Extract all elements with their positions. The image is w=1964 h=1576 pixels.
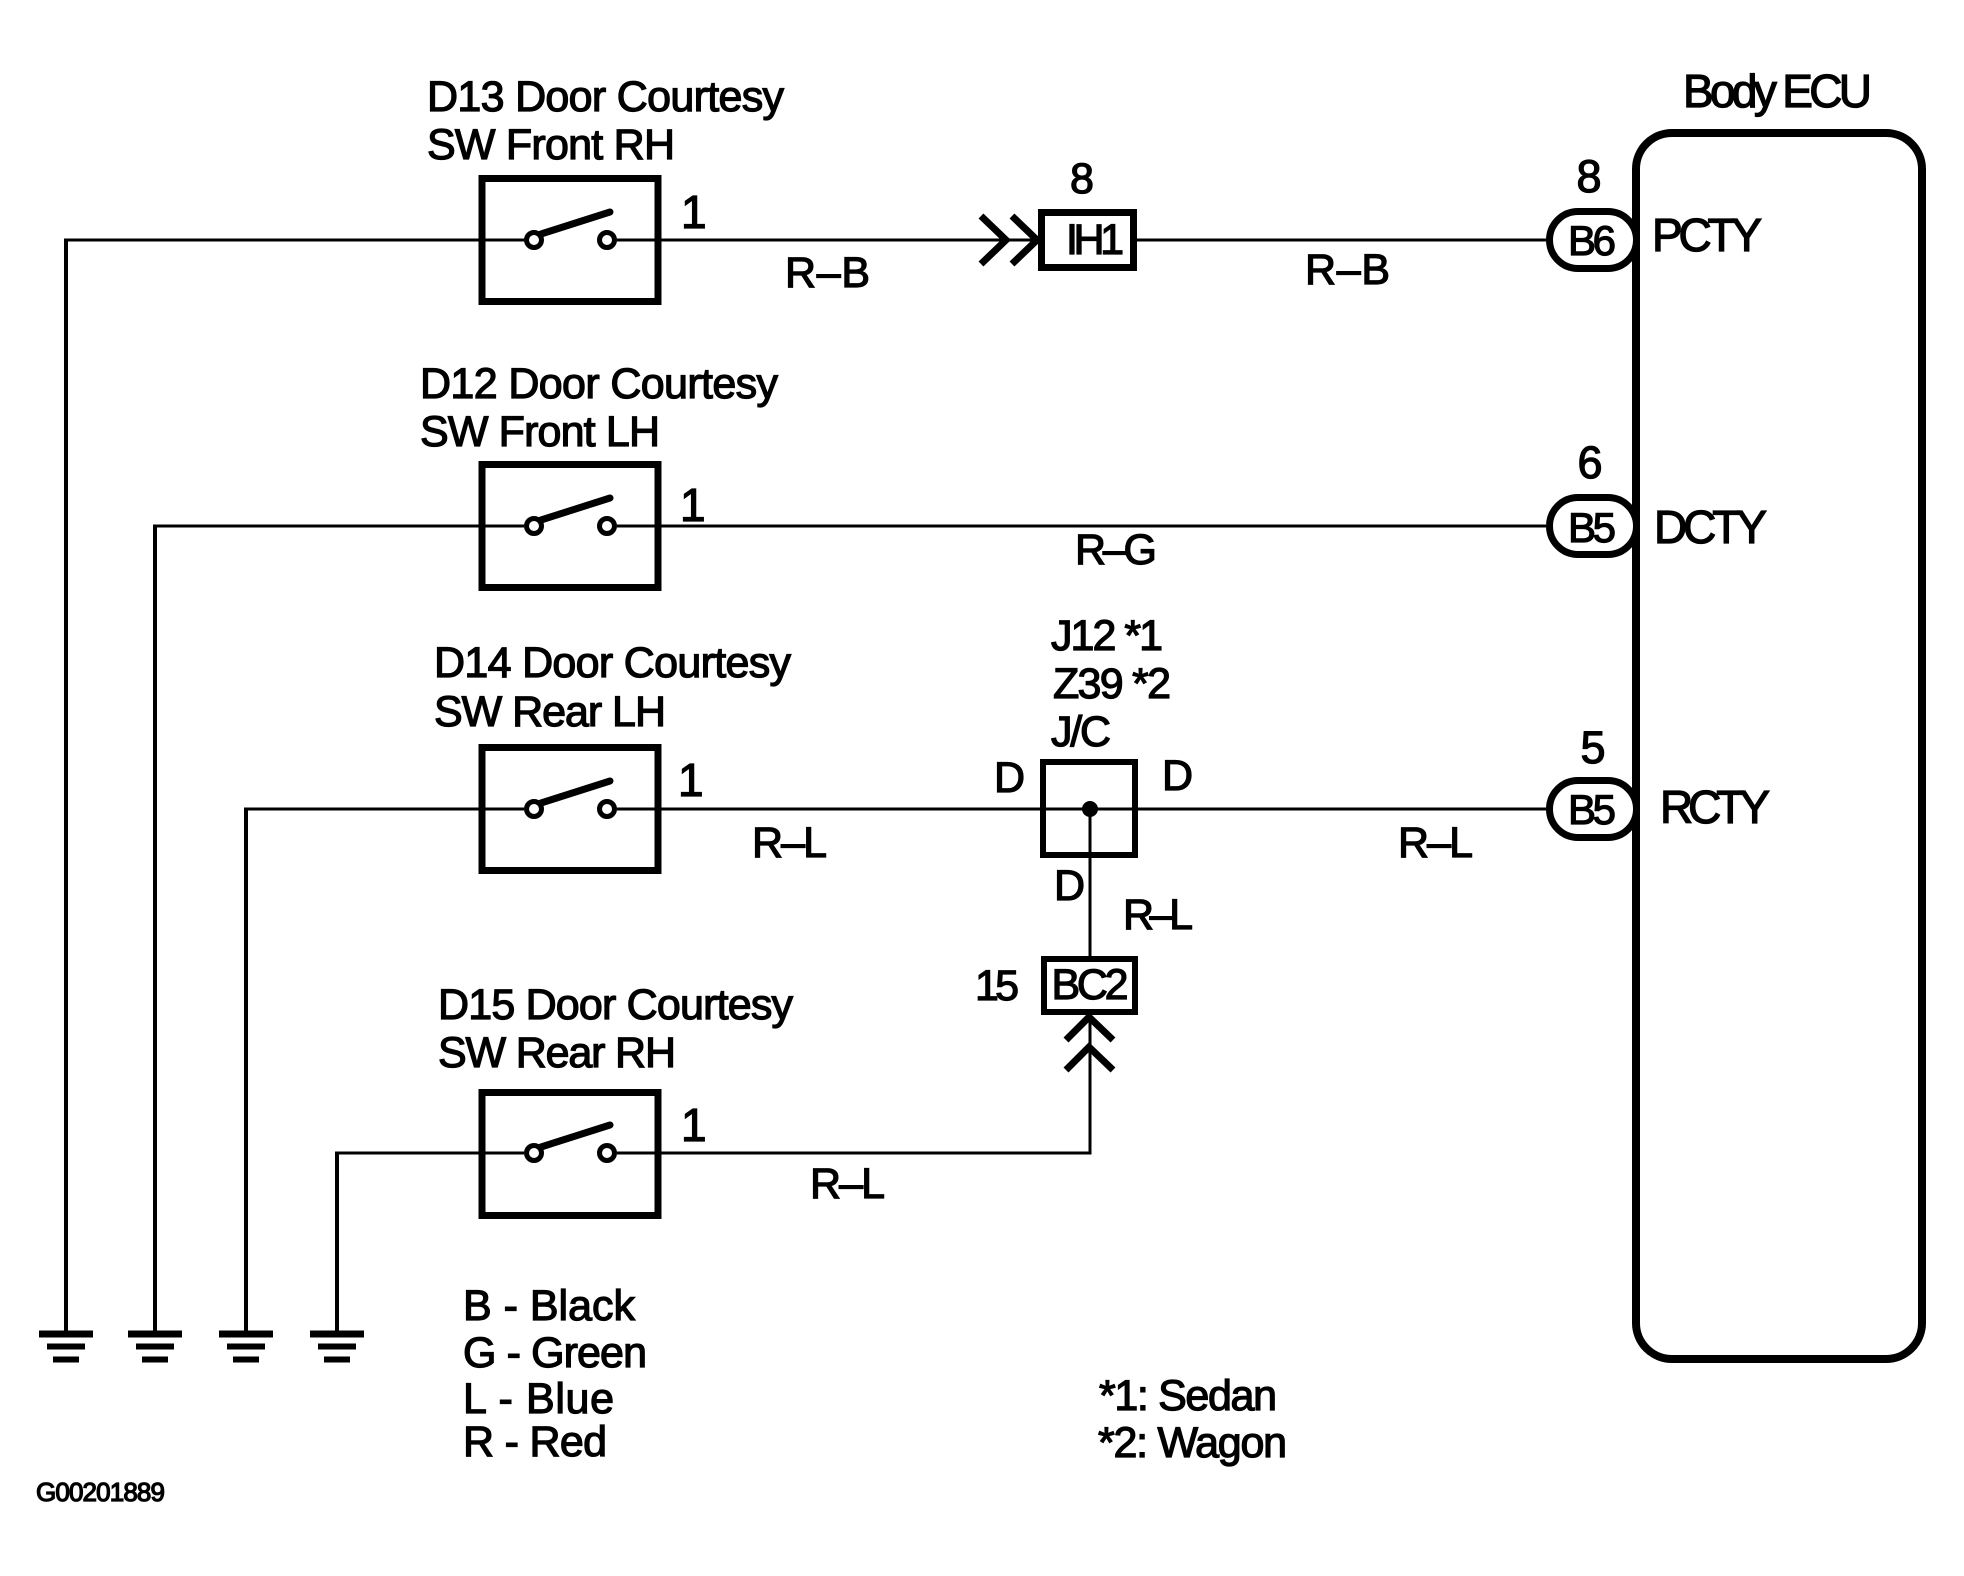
- label D14: [434, 639, 792, 736]
- svg-text:Body ECU: Body ECU: [1683, 65, 1872, 117]
- switch D12 contacts and lever: [527, 498, 615, 534]
- wire row4 left segment: [337, 1152, 524, 1155]
- wire row1 ground drop: [64, 239, 68, 1335]
- svg-text:L - Blue: L - Blue: [463, 1375, 614, 1423]
- ground 4: [310, 1334, 364, 1360]
- wire row4 ground drop: [335, 1152, 339, 1335]
- switch D13 box: [482, 179, 658, 302]
- svg-text:5: 5: [1580, 722, 1605, 773]
- svg-text:D15 Door Courtesy: D15 Door Courtesy: [438, 981, 794, 1029]
- wire BC2 to J/C junction: [1089, 809, 1092, 956]
- wire row2 ground drop: [153, 525, 157, 1335]
- svg-text:R–G: R–G: [1075, 526, 1157, 574]
- wire row3 right segment: [617, 808, 1546, 811]
- harness chevrons below BC2: [1066, 1017, 1113, 1070]
- label D12: [420, 360, 779, 456]
- svg-text:R–B: R–B: [785, 249, 870, 297]
- switch D12 box: [482, 465, 658, 588]
- Body ECU box: [1636, 133, 1922, 1359]
- svg-text:1: 1: [678, 754, 704, 806]
- svg-text:*1: Sedan: *1: Sedan: [1099, 1372, 1277, 1420]
- svg-text:R–L: R–L: [1398, 819, 1473, 867]
- junction connector J12/Z39 J/C box: [1043, 762, 1135, 855]
- svg-text:PCTY: PCTY: [1652, 209, 1762, 261]
- svg-text:B6: B6: [1568, 217, 1616, 264]
- connector B5 pin 6 oval: [1550, 498, 1637, 555]
- switch D15 box: [482, 1093, 658, 1216]
- wire row2 right segment: [617, 525, 1546, 528]
- svg-text:J12 *1: J12 *1: [1051, 612, 1163, 660]
- svg-text:R - Red: R - Red: [463, 1418, 607, 1466]
- wire row3 ground drop: [244, 808, 248, 1335]
- svg-text:SW Rear LH: SW Rear LH: [434, 688, 666, 736]
- svg-text:1: 1: [681, 186, 707, 238]
- svg-text:8: 8: [1070, 155, 1094, 203]
- svg-text:RCTY: RCTY: [1660, 781, 1770, 833]
- svg-text:D12 Door Courtesy: D12 Door Courtesy: [420, 360, 779, 408]
- ground 1: [39, 1334, 93, 1360]
- svg-text:R–B: R–B: [1305, 246, 1390, 294]
- connector B5 pin 5 oval: [1550, 781, 1637, 838]
- ground 2: [128, 1334, 182, 1360]
- connector B6 pin 8 oval: [1550, 212, 1637, 269]
- wire row2 left segment: [155, 525, 524, 528]
- svg-text:D: D: [1054, 862, 1085, 910]
- wire row1 right segment: [617, 239, 1546, 242]
- svg-text:1: 1: [681, 1099, 707, 1151]
- switch D14 box: [482, 748, 658, 871]
- svg-text:R–L: R–L: [752, 819, 827, 867]
- svg-text:1: 1: [680, 479, 706, 531]
- svg-text:D: D: [994, 754, 1025, 802]
- svg-text:BC2: BC2: [1052, 961, 1129, 1009]
- svg-text:SW Rear RH: SW Rear RH: [438, 1029, 676, 1077]
- svg-text:B - Black: B - Black: [463, 1282, 636, 1330]
- svg-text:R–L: R–L: [1123, 891, 1193, 939]
- svg-text:*2: Wagon: *2: Wagon: [1098, 1419, 1287, 1467]
- wire row4 right segment: [617, 1152, 1090, 1155]
- svg-text:G - Green: G - Green: [463, 1329, 647, 1377]
- svg-text:R–L: R–L: [810, 1160, 885, 1208]
- svg-text:G00201889: G00201889: [36, 1477, 165, 1507]
- svg-text:Z39 *2: Z39 *2: [1053, 660, 1171, 708]
- svg-text:DCTY: DCTY: [1654, 501, 1767, 553]
- svg-text:B5: B5: [1568, 786, 1616, 833]
- svg-text:SW Front RH: SW Front RH: [427, 121, 675, 169]
- svg-text:D13 Door Courtesy: D13 Door Courtesy: [427, 73, 785, 121]
- switch D13 contacts and lever: [527, 212, 615, 248]
- svg-text:D: D: [1162, 752, 1193, 800]
- svg-text:8: 8: [1576, 151, 1601, 202]
- svg-text:B5: B5: [1568, 504, 1616, 551]
- junction dot node D: [1082, 801, 1098, 817]
- svg-text:15: 15: [975, 962, 1019, 1010]
- label D15: [438, 981, 794, 1077]
- wire row1 left segment: [66, 239, 524, 242]
- ground 3: [219, 1334, 273, 1360]
- svg-text:6: 6: [1577, 437, 1602, 488]
- connector BC2 box: [1044, 959, 1135, 1012]
- svg-text:D14 Door Courtesy: D14 Door Courtesy: [434, 639, 792, 687]
- svg-text:IH1: IH1: [1066, 216, 1124, 264]
- label D13: [427, 73, 785, 169]
- wire riser from row4 to BC2: [1089, 1015, 1092, 1155]
- switch D14 contacts and lever: [527, 781, 615, 817]
- connector IH1 box: [1042, 213, 1134, 268]
- harness chevrons row1: [981, 216, 1037, 264]
- wire row3 left segment: [246, 808, 524, 811]
- switch D15 contacts and lever: [527, 1125, 615, 1161]
- svg-text:SW Front LH: SW Front LH: [420, 408, 660, 456]
- svg-text:J/C: J/C: [1051, 708, 1111, 756]
